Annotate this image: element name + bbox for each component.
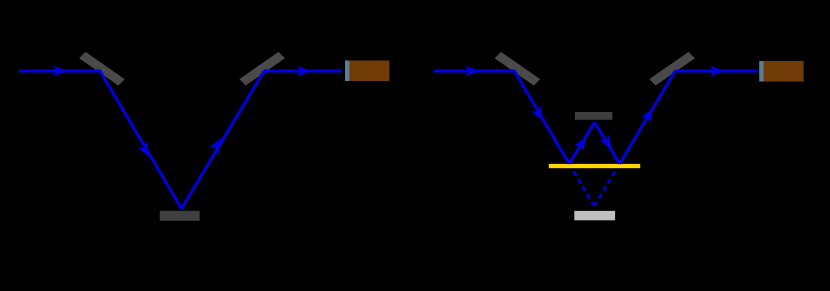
wire: beam up from sample bbox=[182, 71, 265, 209]
wire: inner beam up to small mirror bbox=[569, 122, 595, 164]
arrow on down beam bbox=[531, 106, 548, 124]
mirror M1 (top-left, tilted) bbox=[79, 52, 125, 86]
arrow on up beam bbox=[209, 135, 226, 153]
sample film (yellow) bbox=[549, 164, 640, 168]
substrate block (light gray) bbox=[574, 211, 615, 220]
arrow on input beam bbox=[465, 66, 479, 77]
mirror M4 (top-right, tilted) bbox=[649, 52, 695, 86]
wire: output beam to detector bbox=[675, 70, 758, 73]
wire: output beam to detector bbox=[264, 70, 342, 73]
wire: beam down to sample bbox=[100, 71, 182, 209]
detector body (left) bbox=[350, 61, 390, 82]
detector body (right) bbox=[764, 61, 804, 82]
mirror M3 (top-left, tilted) bbox=[495, 52, 541, 86]
arrow on up beam bbox=[641, 105, 658, 123]
wire: input beam (left) bbox=[19, 70, 101, 73]
wire: input beam (right) bbox=[434, 70, 515, 73]
detector window (right) bbox=[759, 61, 764, 82]
arrow on input beam bbox=[53, 66, 67, 77]
sample mirror (bottom, dark gray) bbox=[160, 211, 200, 221]
mirror M2 (top-right, tilted) bbox=[239, 52, 285, 86]
wire: inner beam down from small mirror bbox=[595, 122, 620, 164]
dashed transmitted beam right bbox=[594, 164, 619, 206]
small top mirror (center) bbox=[575, 112, 613, 120]
detector window (left) bbox=[345, 61, 350, 82]
arrow on inner down beam bbox=[600, 134, 617, 152]
dashed transmitted beam left bbox=[569, 164, 594, 206]
arrow on inner up beam bbox=[574, 134, 591, 152]
arrow on output beam bbox=[710, 66, 724, 77]
arrow on output beam bbox=[297, 66, 311, 77]
wire: beam down to film bbox=[514, 71, 569, 164]
arrow on down beam bbox=[138, 142, 155, 160]
wire: beam up to right mirror bbox=[620, 71, 676, 164]
